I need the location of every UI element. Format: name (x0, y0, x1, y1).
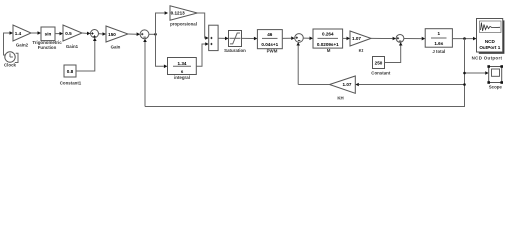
wire Gain to sum2 (128, 33, 137, 35)
svg-text:KH: KH (337, 95, 343, 100)
svg-text:1.4: 1.4 (15, 31, 22, 36)
wire M to Kt (343, 37, 347, 39)
svg-text:150: 150 (108, 32, 116, 37)
wire Saturation to PWM (242, 37, 254, 39)
svg-text:NCD Outport: NCD Outport (472, 55, 503, 60)
transfer fcn PWM 46/(0.04s+1) (257, 30, 282, 49)
svg-text:46: 46 (267, 32, 273, 37)
svg-text:M: M (327, 48, 331, 53)
svg-text:integral: integral (174, 75, 190, 80)
constant Constant1 0.8 (64, 65, 76, 77)
constant Constant 250 (373, 57, 385, 69)
sum3 (295, 34, 304, 43)
integral block 1.34/s (168, 58, 197, 75)
wire Constant1 to sum1 bottom (76, 41, 95, 71)
wire integral to sum block (196, 44, 206, 66)
svg-text:Saturation: Saturation (224, 48, 246, 53)
wire output feedback vertical (145, 39, 465, 107)
wire KH feedback riser into sum3 bottom (297, 46, 299, 85)
trig function block sin (41, 27, 55, 41)
transfer fcn M 0.264/(0.0209s+1) (313, 29, 343, 48)
wire proporsional to sum block (197, 13, 206, 38)
scope NCD Outport with drop shadow (479, 20, 505, 53)
wire to Scope with junction (465, 72, 486, 74)
wire Gain1 to sum1 (82, 32, 87, 34)
svg-text:0.264: 0.264 (322, 31, 334, 36)
wire sum block to Saturation (218, 37, 225, 39)
svg-text:NCD: NCD (485, 39, 496, 44)
wire KH output to sum3 riser (298, 84, 329, 86)
wire PWM to sum3 (282, 37, 291, 39)
wire Gain2 to sin (31, 32, 38, 34)
wire sum2 output with branch node (149, 33, 156, 35)
gain Gain 150 (106, 26, 128, 42)
svg-text:0.8: 0.8 (67, 69, 74, 74)
wire feedback riser into sum2 bottom (144, 42, 146, 107)
gain Gain1 (63, 25, 82, 41)
saturation Saturation (229, 31, 242, 47)
svg-text:Function: Function (38, 45, 57, 50)
gain proporsional 0.1213 (170, 6, 197, 20)
svg-text:0.04s+1: 0.04s+1 (261, 42, 278, 47)
svg-text:J total: J total (432, 49, 445, 54)
svg-text:OutPort 1: OutPort 1 (479, 45, 500, 50)
svg-text:1.34: 1.34 (178, 61, 187, 66)
svg-text:Kt: Kt (359, 48, 364, 53)
sum2 (140, 30, 149, 39)
svg-text:1.6s: 1.6s (434, 41, 443, 46)
svg-text:Gain1: Gain1 (66, 44, 79, 49)
wire Kt to sum4 (371, 37, 393, 39)
svg-text:Gain2: Gain2 (16, 43, 29, 48)
wire clock to Gain2 (4, 33, 10, 55)
svg-text:s: s (181, 69, 184, 74)
wire branch down to integral (156, 34, 164, 66)
svg-text:0.0209s+1: 0.0209s+1 (317, 42, 339, 47)
sum1 (91, 30, 99, 38)
gain KH 1.07 left-pointing (330, 76, 356, 93)
svg-text:PWM: PWM (267, 48, 278, 53)
svg-text:Constant1: Constant1 (60, 80, 82, 85)
transfer fcn Jtotal 1/(1.6s) (425, 29, 452, 48)
gain Gain2 (13, 25, 31, 41)
svg-text:proporsional: proporsional (170, 21, 197, 26)
wire sum4 to Jtotal (404, 38, 422, 40)
wire sum3 to M (303, 37, 309, 39)
sum block rectangular (209, 25, 218, 50)
clock Clock (5, 52, 15, 62)
wire Constant to sum4 bottom (385, 46, 401, 63)
svg-text:0.5: 0.5 (65, 31, 72, 36)
wire sin to Gain1 (55, 33, 60, 35)
scope Scope (489, 67, 502, 83)
svg-text:sin: sin (45, 32, 52, 37)
wire sum1 to Gain (99, 33, 103, 35)
svg-text:1.07: 1.07 (352, 36, 361, 41)
svg-text:1.07: 1.07 (343, 82, 352, 87)
svg-text:1: 1 (438, 31, 441, 36)
svg-text:Constant: Constant (371, 71, 391, 76)
wire Jtotal to NCD with junction (452, 38, 473, 40)
svg-text:0.1213: 0.1213 (171, 11, 185, 16)
gain Kt 1.07 (350, 31, 371, 46)
svg-text:Gain: Gain (111, 45, 121, 50)
svg-text:Scope: Scope (489, 85, 503, 90)
sum4 (396, 35, 404, 43)
svg-text:Clock: Clock (4, 63, 17, 68)
svg-text:250: 250 (375, 61, 383, 66)
wire to KH with junction (359, 84, 465, 86)
wire branch up to proporsional (156, 13, 165, 34)
